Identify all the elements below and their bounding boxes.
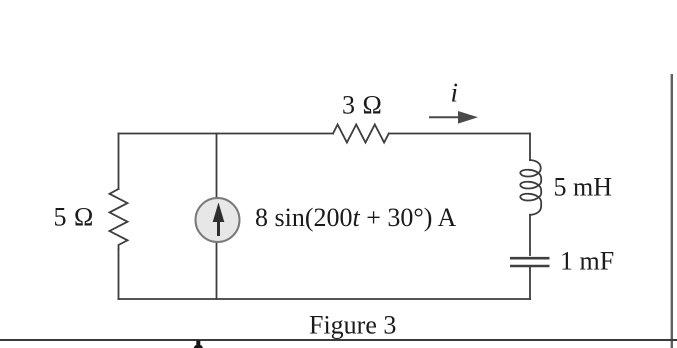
cut-off text tick [194, 341, 203, 348]
wire left lower [118, 249, 120, 299]
wire middle upper [216, 134, 218, 199]
current arrow i [429, 111, 478, 124]
svg-text:5 mH: 5 mH [554, 173, 613, 202]
inductor L 5mH [520, 160, 541, 215]
current source I1 arrow [213, 203, 225, 237]
wire right upper [529, 134, 531, 161]
svg-text:8 sin(200t + 30°) A: 8 sin(200t + 30°) A [255, 203, 457, 232]
page right border line [671, 74, 673, 348]
svg-text:Figure 3: Figure 3 [309, 311, 396, 340]
wire middle lower [216, 242, 218, 299]
wire right lower [529, 267, 531, 300]
resistor R 5ohm [110, 189, 128, 249]
capacitor C 1mF plates [510, 258, 550, 266]
svg-text:5 Ω: 5 Ω [54, 203, 94, 232]
resistor R 3ohm [333, 125, 389, 143]
current source I1 circle [196, 198, 240, 242]
svg-text:i: i [451, 78, 459, 108]
wire bottom [119, 298, 531, 300]
page bottom rule [0, 339, 677, 341]
svg-text:1 mF: 1 mF [560, 247, 614, 276]
wire top-left segment [119, 133, 334, 135]
svg-text:3 Ω: 3 Ω [342, 91, 382, 120]
wire left upper [118, 134, 120, 190]
wire right mid [529, 215, 531, 255]
wire top-right segment [389, 133, 530, 135]
